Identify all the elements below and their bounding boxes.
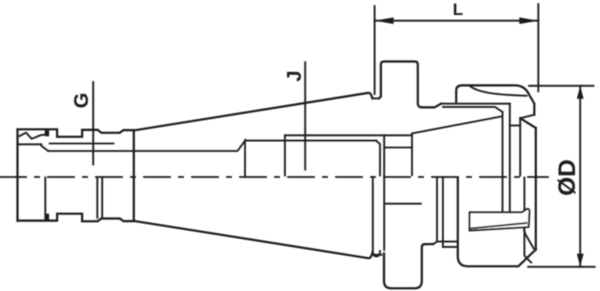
- G leader line: [92, 82, 94, 164]
- flange bottom edge: [425, 243, 433, 245]
- L dimension extension lines: [375, 4, 539, 94]
- taper cone top edge: [134, 93, 373, 131]
- svg-text:J: J: [284, 70, 306, 81]
- neck groove verticals (bottom half): [97, 178, 102, 218]
- nut wrench slot (white filled window): [470, 209, 530, 231]
- svg-text:L: L: [453, 0, 463, 19]
- nut bottom outline: [458, 178, 536, 267]
- band verticals (top): [502, 112, 504, 176]
- band ring mirror (bottom): [439, 241, 458, 243]
- ØD dimension line: [579, 86, 581, 267]
- svg-text:ØD: ØD: [554, 159, 581, 196]
- taper cone bottom edge: [134, 221, 373, 258]
- flange valley (bottom): [372, 253, 381, 255]
- flange inner vertical x=412 (top): [411, 133, 413, 175]
- nut dish curve: [471, 87, 527, 96]
- body cone slant behind nut (top): [412, 116, 502, 133]
- neck line C: [285, 134, 412, 136]
- nut inner step horizontal: [510, 125, 520, 127]
- svg-text:G: G: [71, 93, 93, 109]
- thread inner line (top): [18, 143, 42, 145]
- bore line (bottom): [385, 203, 421, 205]
- drive tab (top): [379, 62, 422, 108]
- nut front cone (top): [520, 115, 534, 176]
- flange top edge and rim chamfer: [422, 104, 441, 108]
- drive tab (bottom): [384, 244, 425, 288]
- nut front face: [535, 128, 537, 250]
- J leader line: [304, 62, 306, 169]
- bottom flange gauge-line U: [373, 177, 380, 256]
- nut outline: [456, 85, 534, 114]
- L dim arrowheads: [375, 17, 584, 266]
- centerline (dash-dot axis): [0, 176, 548, 178]
- L dimension line: [375, 20, 539, 22]
- thread end cap outline (top): [18, 129, 134, 220]
- nut front cone mirror slant (bottom): [524, 230, 534, 249]
- neck top line B: [48, 141, 245, 176]
- collet tip vertical (bottom): [524, 178, 531, 263]
- band ring line2 + chamfer (top): [443, 107, 503, 112]
- ØD extension lines: [528, 86, 595, 267]
- vertical at gauge step x=284.9: [284, 135, 286, 175]
- thread relief vertical + chamfer: [41, 144, 48, 151]
- cap inner vertical (bottom): [44, 178, 46, 221]
- flange left face vertical: [383, 135, 385, 250]
- band ring line1 behind nut (top): [441, 103, 510, 105]
- bore line (top): [385, 147, 412, 149]
- break line zigzag in thread cap: [20, 133, 46, 139]
- thread end cap outline (bottom): [18, 214, 134, 222]
- flange valley (top): [372, 97, 378, 99]
- neck line B chamfer end vertical: [377, 141, 381, 176]
- thread minor line A (top): [50, 143, 114, 145]
- slot inner slant: [471, 223, 527, 228]
- taper cone small-end vertical: [133, 130, 135, 221]
- note: line B runs 245->376.5: [245, 140, 377, 142]
